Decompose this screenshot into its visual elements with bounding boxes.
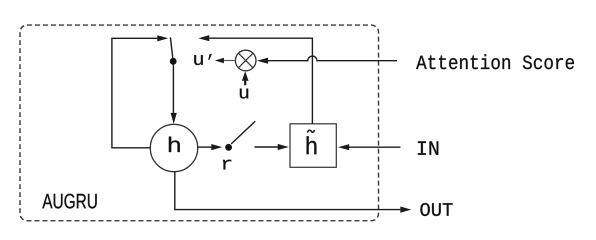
label IN [418, 141, 438, 154]
label r [223, 160, 231, 170]
node h (hidden state circle) [150, 124, 197, 171]
block h-tilde (candidate state) [290, 124, 336, 168]
wire: candidate block top up and left (attention feedback) [209, 38, 312, 124]
label Attention Score [416, 54, 574, 69]
AUGRU cell dashed border [20, 25, 379, 221]
wire: u up into multiplier [244, 76, 246, 85]
op: attention multiplier circle-cross [235, 50, 256, 71]
switch u' (update gate arm) [170, 37, 173, 61]
node: reset switch pivot junction [225, 144, 232, 151]
wire: IN into candidate block [349, 146, 401, 148]
label: tilde over h [307, 130, 314, 133]
wire: h down and out of cell [175, 172, 400, 210]
label u [240, 89, 248, 99]
label AUGRU [42, 194, 96, 209]
wire: reset switch to candidate block [255, 146, 279, 148]
wire: h to reset switch [198, 146, 212, 148]
wire: pivot down into h [172, 61, 174, 113]
wire: multiplier out to u' [221, 60, 235, 62]
switch r (reset gate arm) [231, 121, 255, 144]
label OUT [420, 203, 452, 216]
node: update switch pivot junction [170, 58, 177, 65]
wire: recurrent loop from h left side up and over to update switch [112, 38, 157, 148]
label u' [194, 55, 203, 65]
wire: attention score into multiplier (hops over vertical wire) [262, 56, 397, 61]
